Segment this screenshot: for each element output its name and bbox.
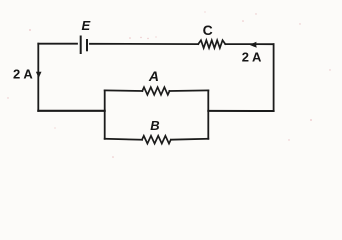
- resistor A: [142, 87, 169, 95]
- wire bottom-left horizontal: [38, 110, 104, 112]
- svg-text:A: A: [148, 68, 159, 84]
- svg-text:E: E: [82, 18, 91, 33]
- wire box bottom-right segment: [171, 138, 208, 141]
- wire box top-left segment: [105, 89, 143, 92]
- wire right vertical: [273, 44, 275, 111]
- svg-text:B: B: [150, 118, 159, 133]
- current direction arrow on top-right wire (left), 2 A: [249, 42, 256, 48]
- wire bottom-right horizontal: [208, 110, 273, 112]
- inner box left edge wire: [104, 90, 106, 138]
- resistor B: [142, 136, 171, 144]
- svg-text:2 A: 2 A: [242, 49, 262, 64]
- svg-text:C: C: [203, 22, 213, 38]
- wire box top-right segment: [169, 89, 208, 92]
- inner box right edge wire: [207, 90, 209, 138]
- wire top-left segment: [38, 43, 77, 45]
- wire top-middle segment: [90, 43, 198, 45]
- battery E: [81, 37, 87, 54]
- wire box bottom-left segment: [105, 138, 142, 141]
- wire top-right segment: [225, 43, 273, 45]
- wire left vertical: [37, 44, 39, 111]
- svg-text:2 A: 2 A: [13, 67, 33, 82]
- resistor C: [198, 40, 225, 48]
- current direction arrow on left wire (down), 2 A: [36, 72, 42, 78]
